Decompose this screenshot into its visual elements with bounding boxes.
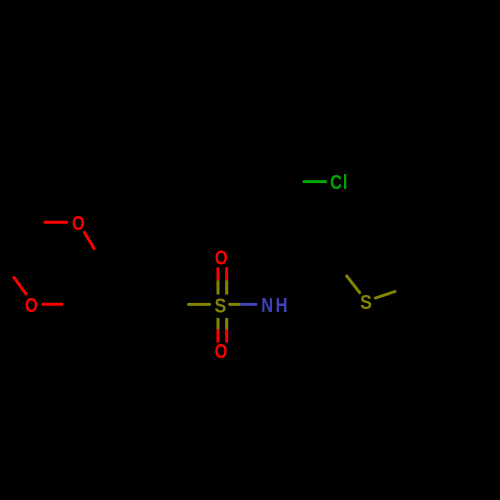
- wire: bond O2-ring C (red half, horizontal right): [43, 303, 62, 306]
- wire: bond S2-C5 thiophene (olive half, right diagonal): [376, 292, 396, 299]
- svg-text:H: H: [276, 293, 288, 316]
- svg-text:C: C: [330, 170, 342, 193]
- wire: bond ringC-Cl (green half): [304, 180, 326, 183]
- wire: bond O1-ring C (red half, down-right): [85, 233, 95, 249]
- svg-text:O: O: [215, 246, 228, 269]
- svg-text:S: S: [360, 292, 372, 315]
- wire: S1=O3 double bond upper, line 2 (red O half): [225, 267, 228, 280]
- wire: bond S1-N (blue half): [242, 303, 257, 306]
- wire: S1=O4 double bond lower, line 2 (red O half): [225, 330, 228, 343]
- wire: S1=O3 double bond upper, line 1 (olive S half): [217, 280, 220, 294]
- wire: S1=O4 double bond lower, line 1 (red O half): [217, 330, 220, 343]
- svg-text:O: O: [215, 339, 228, 362]
- svg-text:O: O: [72, 211, 85, 234]
- wire: bond S1-N (olive half): [230, 303, 242, 306]
- wire: S1=O3 double bond upper, line 2 (olive S half): [225, 280, 228, 294]
- wire: S1=O4 double bond lower, line 2 (olive S half): [225, 318, 228, 330]
- wire: S1=O3 double bond upper, line 1 (red O half): [217, 267, 220, 280]
- wire: bond O1-CH3 (red half, methoxy top-left): [45, 221, 67, 224]
- svg-text:N: N: [261, 293, 273, 316]
- wire: S1=O4 double bond lower, line 1 (olive S half): [217, 318, 220, 330]
- wire: bond ringC-S1 (olive half, horizontal into sulfonyl S): [189, 303, 210, 306]
- svg-text:S: S: [215, 295, 227, 318]
- svg-text:O: O: [25, 293, 38, 316]
- wire: bond C2-S2 thiophene (olive half, upper-left diagonal): [347, 276, 360, 293]
- wire: bond CH3-O2 (red half, diagonal up-left of O2): [14, 278, 26, 295]
- svg-text:l: l: [343, 170, 348, 193]
